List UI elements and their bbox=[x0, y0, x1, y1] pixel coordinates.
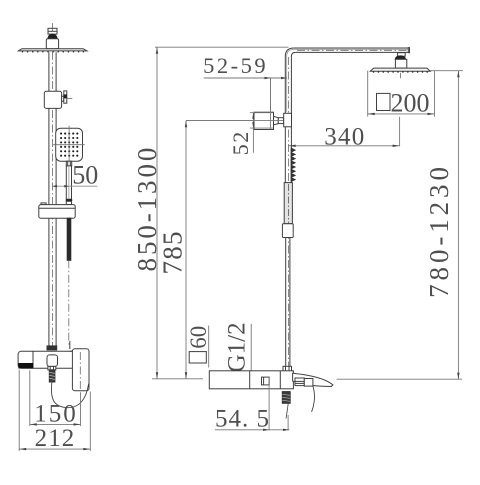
dimension 150 bbox=[30, 370, 81, 426]
head plate side view bbox=[370, 68, 430, 71]
pipe bend top bbox=[285, 48, 295, 57]
dim 780-1230 line bbox=[424, 71, 460, 380]
mixer body front bbox=[18, 351, 89, 368]
mixer spout black band front bbox=[19, 364, 33, 369]
mixer body side view bbox=[209, 371, 293, 389]
mixer right handle front bbox=[70, 349, 89, 391]
holder bracket front bbox=[39, 203, 75, 218]
dimension 212 bbox=[19, 370, 90, 451]
dimension square200 bbox=[368, 71, 435, 118]
dimension 50 bbox=[53, 161, 99, 190]
hose loop curve front bbox=[51, 382, 88, 408]
label square 60 bbox=[186, 326, 211, 368]
wall bracket side view bbox=[254, 112, 292, 129]
spout side view bbox=[293, 373, 333, 386]
centerline pole front bbox=[52, 23, 54, 346]
pipe vertical side view bbox=[285, 57, 291, 367]
hose hidden centerline front bbox=[68, 260, 70, 344]
head mount front bbox=[46, 39, 58, 49]
head nozzles side bbox=[374, 71, 428, 72]
ball joint front bbox=[48, 34, 57, 39]
label G1/2 bbox=[224, 322, 252, 374]
svg-text:785: 785 bbox=[157, 230, 187, 274]
bottom reference line left bbox=[152, 378, 203, 380]
outer tube side view bbox=[284, 183, 292, 224]
rod tail line bbox=[286, 403, 288, 418]
pole front bbox=[49, 52, 56, 346]
hand shower nozzle dots bbox=[60, 133, 78, 157]
shower head plate front bbox=[18, 49, 87, 51]
hand shower handle front bbox=[66, 166, 71, 199]
dimension 54.5 bbox=[215, 377, 290, 432]
hex nut front bbox=[48, 366, 56, 370]
slider block side view bbox=[282, 224, 293, 238]
svg-text:150: 150 bbox=[34, 401, 78, 428]
head center dash side bbox=[400, 73, 402, 79]
svg-text:52: 52 bbox=[228, 130, 253, 155]
head side: mount connector bbox=[395, 53, 407, 68]
dim 780-1230 top leader bbox=[430, 70, 463, 72]
slider knob front bbox=[62, 91, 73, 103]
dim 850-1300 leader top bbox=[155, 46, 289, 48]
dim 850-1300 line bbox=[132, 47, 162, 379]
hose coil teeth side view bbox=[291, 148, 295, 182]
svg-text:50: 50 bbox=[72, 161, 98, 190]
mixer center fitting front bbox=[47, 355, 58, 367]
bottom reference line right bbox=[337, 378, 462, 380]
svg-text:212: 212 bbox=[35, 425, 76, 452]
svg-text:G1/2: G1/2 bbox=[224, 322, 251, 372]
mixer pole nut front bbox=[47, 346, 57, 350]
water stream line side bbox=[312, 386, 315, 412]
top connector front bbox=[48, 28, 57, 34]
handle stub below band bbox=[66, 201, 71, 204]
svg-text:52-59: 52-59 bbox=[203, 53, 268, 78]
horizontal arm bbox=[294, 48, 410, 53]
svg-text:60: 60 bbox=[186, 326, 211, 349]
hand shower nut front bbox=[66, 161, 71, 166]
head nozzles front bbox=[23, 51, 84, 52]
hand shower face front bbox=[56, 128, 83, 161]
lower pipe side view bbox=[286, 238, 290, 367]
hose end front bbox=[69, 341, 71, 349]
dimension 52 vertical bbox=[228, 113, 273, 156]
785 leader over bracket bbox=[186, 120, 283, 122]
svg-text:54. 5: 54. 5 bbox=[215, 405, 270, 432]
svg-text:200: 200 bbox=[391, 88, 430, 117]
dimension 52-59 bbox=[203, 53, 287, 130]
52-59 extension line over bracket bbox=[270, 78, 272, 130]
dimension 340 bbox=[289, 117, 400, 151]
hand shower crosshair bbox=[53, 126, 85, 166]
svg-text:340: 340 bbox=[324, 123, 365, 150]
svg-text:780-1230: 780-1230 bbox=[424, 163, 454, 298]
hand shower handle dark band bbox=[66, 199, 72, 201]
slider bracket front bbox=[44, 91, 61, 108]
hex nut side view bbox=[283, 366, 292, 372]
aerator boxes under spout bbox=[295, 378, 313, 386]
dim 785 bbox=[157, 121, 283, 379]
hose dark segment front bbox=[67, 218, 71, 260]
threaded rod side view bbox=[282, 392, 290, 404]
threaded rod front bbox=[49, 370, 55, 382]
